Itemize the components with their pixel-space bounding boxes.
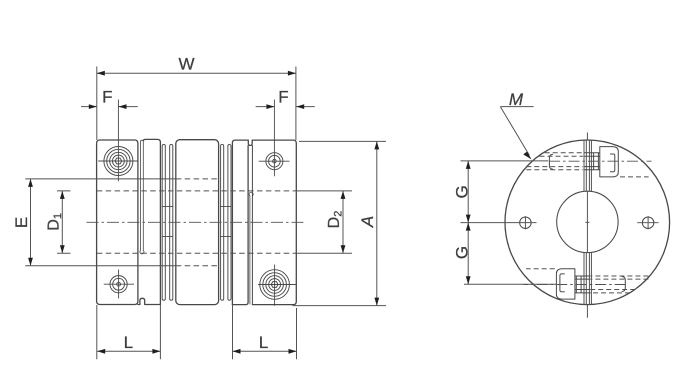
svg-text:L: L [259,333,268,352]
svg-text:M: M [509,90,524,109]
svg-text:F: F [102,88,112,107]
svg-text:G: G [452,185,471,198]
svg-text:F: F [278,88,288,107]
svg-text:E: E [12,217,31,228]
svg-text:G: G [452,246,471,259]
svg-text:W: W [178,54,194,73]
svg-text:D1: D1 [46,213,65,231]
svg-text:L: L [124,333,133,352]
svg-text:A: A [358,216,377,228]
svg-text:D2: D2 [326,211,345,229]
